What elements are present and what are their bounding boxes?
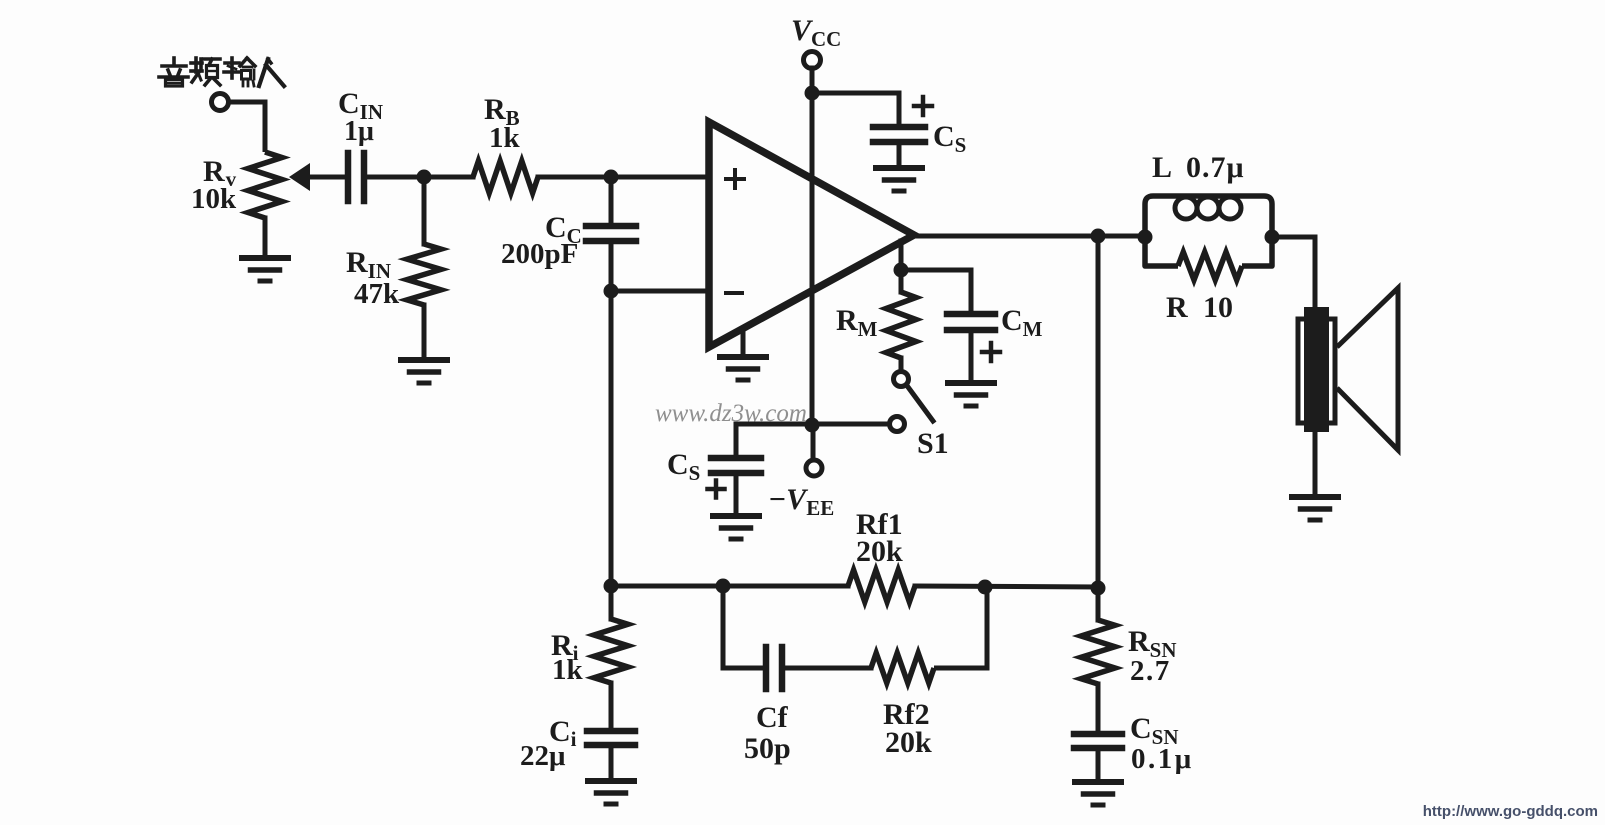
svg-text:VCC: VCC [791, 14, 841, 51]
junction: output feedback tap [1091, 229, 1106, 244]
plus polarity (C_S bottom) [708, 487, 725, 492]
inductor L 0.7u loops [1175, 197, 1197, 219]
junction: L network right node [1265, 230, 1280, 245]
switch S1 arm [908, 387, 933, 421]
ground (op-amp) [720, 354, 766, 360]
wire VCC rail vertical (through op-amp to -VEE) [810, 68, 815, 425]
svg-text:Cf: Cf [756, 701, 789, 734]
junction: feedback node (Cf branch) [716, 579, 731, 594]
svg-text:200pF: 200pF [501, 238, 578, 270]
capacitor C_M [947, 311, 995, 318]
capacitor C_S (VEE bypass) [711, 455, 761, 462]
junction: inverting node [604, 284, 619, 299]
wire R_M to switch [899, 358, 904, 372]
wire Rf1 to output node [915, 586, 1098, 587]
resistor R_SN 2.7 [1081, 620, 1115, 684]
wire C_i to ground [609, 745, 614, 781]
svg-text:http://www.go-gddq.com: http://www.go-gddq.com [1423, 803, 1598, 820]
resistor Rv 10k (potentiometer body) [248, 152, 282, 218]
junction: mute pin node [894, 263, 909, 278]
wire op-amp output to L network [914, 234, 1145, 239]
node: switch S1 lower contact [890, 417, 905, 432]
junction: VCC node [805, 86, 820, 101]
resistor Rf2 20k [871, 653, 934, 683]
ground (C_i) [588, 778, 634, 784]
ground (C_M) [948, 380, 994, 386]
resistor Rf1 20k [848, 570, 915, 602]
wire mute node to C_M [901, 270, 971, 314]
svg-text:R: R [1166, 291, 1188, 324]
wire R_IN to ground [422, 305, 427, 360]
wire R_SN to C_SN [1096, 684, 1101, 734]
svg-text:50p: 50p [744, 732, 791, 765]
wire Rv bottom to ground [263, 218, 268, 258]
svg-text:20k: 20k [856, 535, 903, 568]
svg-text:10: 10 [1203, 291, 1233, 324]
capacitor C_i 22u [587, 728, 635, 735]
junction: feedback node (R_i) [604, 579, 619, 594]
resistor R 10 (in bottom leg) [1178, 260, 1242, 272]
capacitor Cf 50p [763, 647, 770, 689]
wire R_B to op-amp + input [538, 175, 709, 180]
svg-text:20k: 20k [885, 726, 932, 759]
junction: Rf2 top node [978, 580, 993, 595]
capacitor C_C 200pF [586, 223, 636, 230]
resistor R_M [899, 270, 904, 292]
wire C_SN to ground [1096, 748, 1101, 782]
wire C_S bottom to ground [734, 473, 739, 516]
wire inverting node down to feedback node [609, 291, 614, 586]
wire feedback row left [611, 584, 848, 589]
wire -VEE node to S1 lower contact [812, 422, 889, 427]
wire feedback node to R_i [609, 586, 614, 619]
junction: -VEE node [805, 418, 820, 433]
junction: L network left node [1138, 230, 1153, 245]
wire input terminal to Rv top [228, 102, 265, 152]
ground (Rv) [242, 255, 288, 261]
op-amp - input symbol [726, 291, 742, 295]
svg-text:1μ: 1μ [344, 116, 374, 147]
svg-text:RM: RM [836, 304, 878, 341]
resistor R_B 1k [473, 161, 538, 193]
node VCC terminal [804, 52, 821, 69]
wire Cf to Rf2 [782, 666, 871, 671]
potentiometer wiper arrow [289, 163, 310, 191]
wire input node down to R_IN [422, 177, 427, 244]
wire C_IN to input node [364, 175, 424, 180]
wire input node to R_B [424, 175, 473, 180]
capacitor C_S (VCC bypass) [873, 124, 925, 131]
wire -VEE node to -VEE terminal [811, 425, 816, 460]
label 音频输入 (audio input) [172, 58, 176, 64]
junction: input node (C_IN/R_IN/R_B) [417, 170, 432, 185]
ground (speaker) [1292, 494, 1338, 500]
resistor R_i 1k [594, 619, 628, 683]
svg-text:1k: 1k [552, 654, 584, 686]
svg-text:47k: 47k [354, 278, 400, 310]
op-amp U1 triangle [709, 122, 914, 347]
svg-text:CS: CS [933, 120, 966, 157]
wire VCC node to C_S [812, 93, 899, 127]
wire L network to speaker [1272, 237, 1315, 310]
wire R_i to C_i [609, 683, 614, 731]
ground (C_SN) [1075, 779, 1121, 785]
wire inverting node to op-amp - input [611, 289, 709, 294]
capacitor C_IN 1u [345, 153, 352, 201]
svg-text:−VEE: −VEE [768, 483, 834, 520]
svg-text:0.7μ: 0.7μ [1186, 151, 1245, 184]
capacitor C_SN 0.1u [1074, 731, 1122, 738]
wire node to C_C top [609, 177, 614, 226]
svg-text:CM: CM [1001, 304, 1043, 341]
L-R parallel network outline [1145, 196, 1272, 266]
svg-text:2.7: 2.7 [1130, 655, 1171, 687]
ground (C_S top) [876, 165, 922, 171]
svg-text:22μ: 22μ [520, 740, 566, 772]
op-amp + input symbol [726, 177, 744, 181]
op-amp ground pin wire [741, 330, 746, 357]
node: audio input terminal (音频输入) [212, 94, 229, 111]
speaker LS1 frame [1298, 319, 1335, 423]
wire snubber node to R_SN [1096, 588, 1101, 620]
resistor R_IN 47k [407, 244, 441, 305]
svg-text:www.dz3w.com: www.dz3w.com [655, 400, 807, 427]
wire op-amp edge to mute node [899, 241, 904, 270]
junction: snubber node [1091, 581, 1106, 596]
wire output node down to feedback row [1096, 236, 1101, 588]
ground (C_S bottom) [713, 513, 759, 519]
speaker LS1 magnet (solid) [1304, 307, 1329, 432]
svg-text:L: L [1152, 151, 1172, 184]
svg-text:1k: 1k [489, 122, 521, 154]
svg-text:0.1μ: 0.1μ [1131, 743, 1194, 775]
plus polarity (C_M) [982, 350, 1000, 355]
wire speaker to ground [1313, 432, 1318, 497]
svg-text:S1: S1 [917, 427, 949, 460]
wire Cf branch down [723, 586, 766, 668]
svg-text:CS: CS [667, 448, 700, 485]
wire Rf2 up to feedback row [934, 587, 987, 668]
wire C_S to ground [897, 142, 902, 168]
svg-text:10k: 10k [191, 183, 237, 215]
junction: noninverting node [604, 170, 619, 185]
wire -VEE node to C_S bottom [736, 422, 812, 427]
speaker LS1 cone [1337, 288, 1398, 450]
node: switch S1 upper contact [894, 372, 909, 387]
plus polarity (C_S top) [914, 104, 932, 109]
wire C_M to ground [969, 330, 974, 383]
ground (R_IN) [401, 357, 447, 363]
node -VEE terminal [806, 460, 822, 476]
wire C_C bottom to inverting node [609, 241, 614, 291]
